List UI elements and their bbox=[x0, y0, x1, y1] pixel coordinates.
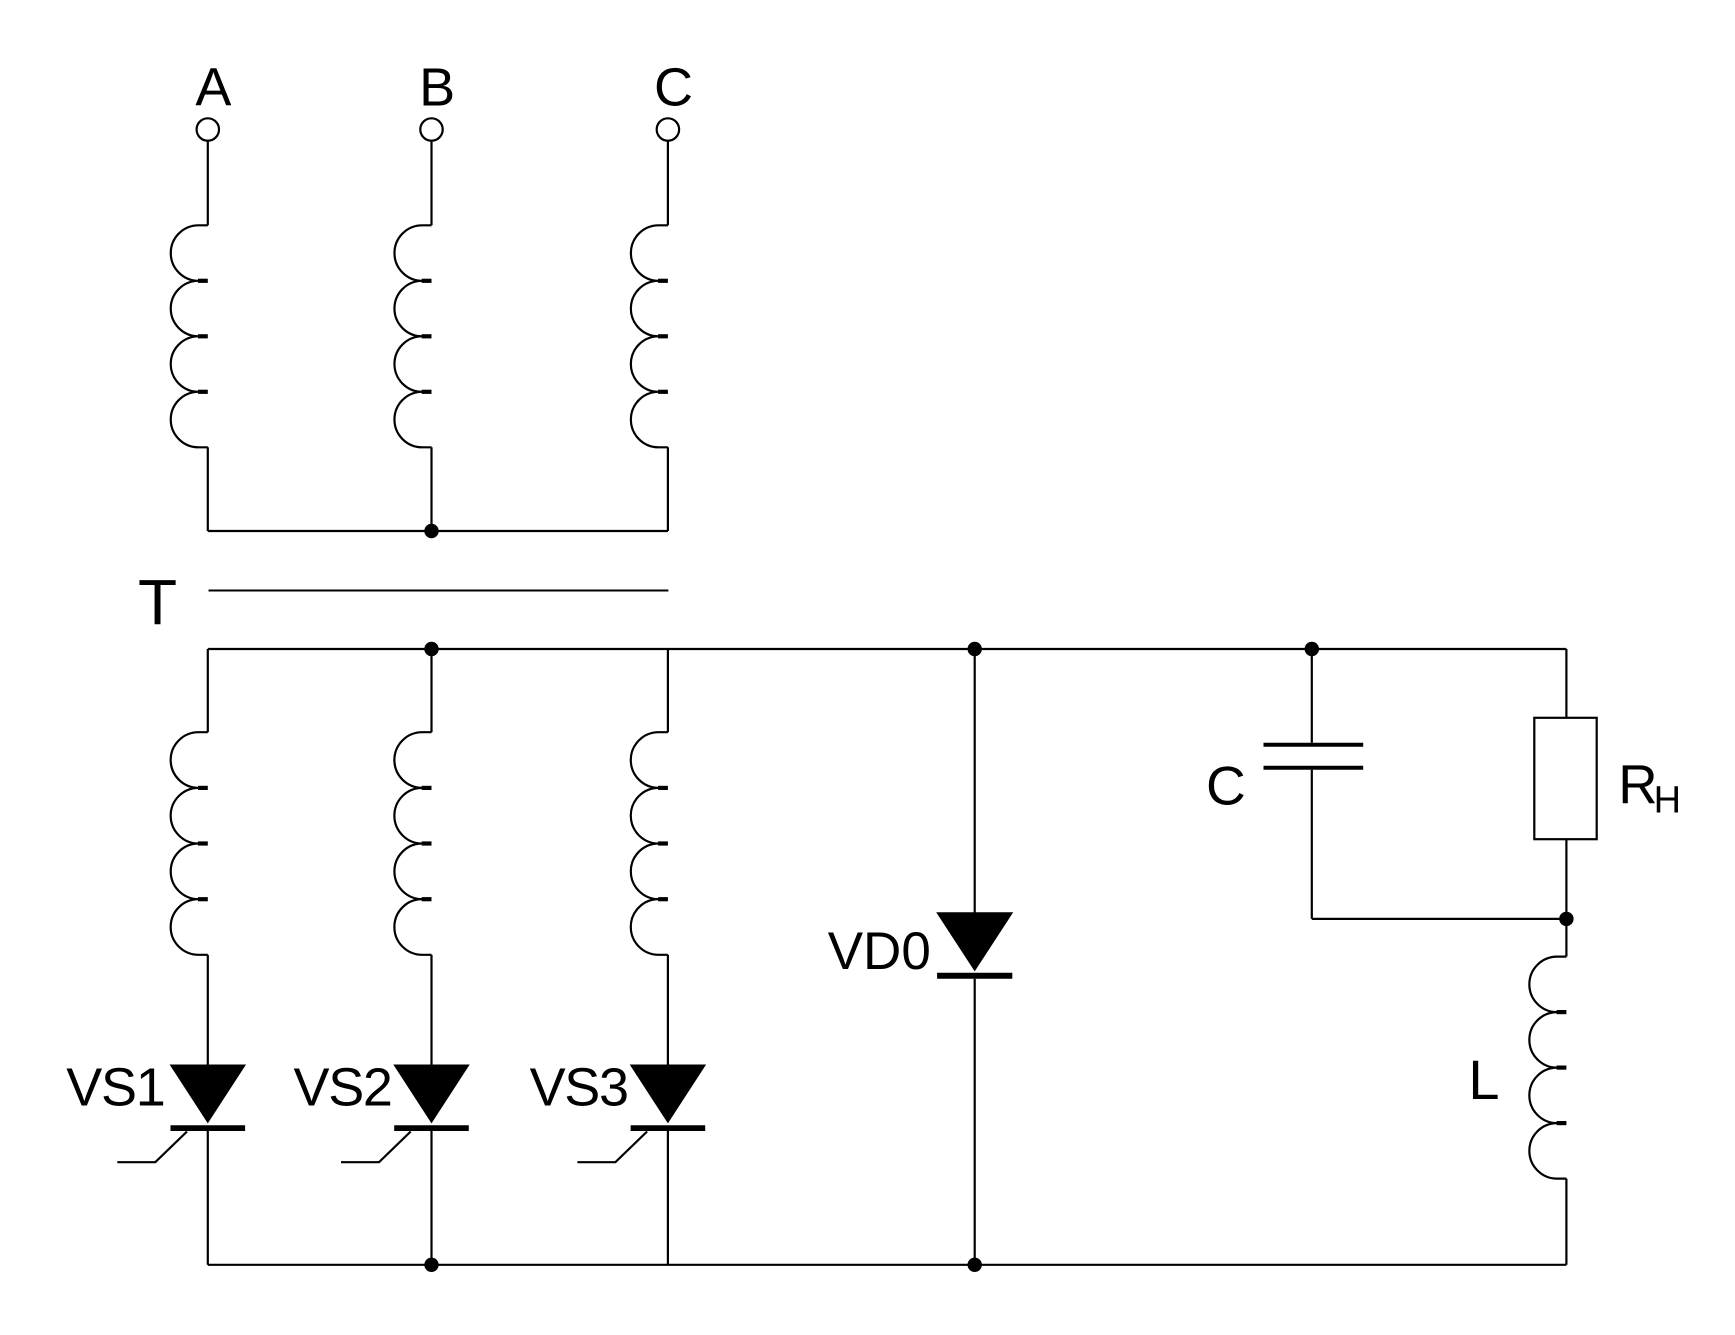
wire top bus corner down to resistor RH bbox=[1565, 649, 1567, 718]
wire primary winding B bottom to neutral bbox=[430, 447, 432, 531]
wire neutral (star point) bbox=[208, 530, 668, 532]
capacitor C bottom plate bbox=[1264, 766, 1364, 770]
node bottom bus - VD0 junction bbox=[968, 1258, 982, 1272]
wire top bus to capacitor C bbox=[1311, 649, 1313, 743]
thyristor VS1 cathode bar bbox=[171, 1125, 246, 1131]
capacitor C top plate bbox=[1264, 743, 1364, 747]
thyristor VS3 cathode bar bbox=[631, 1125, 706, 1131]
wire secondary winding C to thyristor VS3 bbox=[667, 955, 669, 1065]
node star point junction bbox=[424, 524, 438, 538]
wire load node to inductor L bbox=[1565, 926, 1567, 957]
secondary winding phase C bbox=[631, 732, 668, 955]
node top bus - capacitor junction bbox=[1305, 642, 1319, 656]
node capacitor / RH / L junction bbox=[1559, 912, 1573, 926]
wire thyristor VS1 cathode to bottom bus bbox=[207, 1131, 209, 1265]
wire bus to secondary winding A bbox=[207, 649, 209, 732]
primary winding phase C bbox=[631, 225, 668, 447]
svg-text:VD0: VD0 bbox=[828, 922, 931, 981]
secondary winding phase A bbox=[171, 732, 208, 955]
svg-text:VS1: VS1 bbox=[66, 1058, 164, 1118]
terminal B bbox=[420, 118, 442, 140]
wire bus to secondary winding C bbox=[667, 649, 669, 732]
thyristor VS2 cathode bar bbox=[394, 1125, 469, 1131]
wire diode VD0 cathode to bottom bus bbox=[974, 979, 976, 1265]
inductor L bbox=[1529, 957, 1566, 1179]
node bottom bus - phase B junction bbox=[424, 1258, 438, 1272]
thyristor VS1 anode triangle bbox=[171, 1065, 246, 1123]
svg-text:A: A bbox=[195, 58, 231, 118]
resistor RH body bbox=[1534, 718, 1596, 839]
thyristor VS2 gate lead bbox=[341, 1132, 411, 1163]
svg-text:L: L bbox=[1468, 1048, 1499, 1111]
wire A terminal to primary winding bbox=[207, 141, 209, 226]
wire B terminal to primary winding bbox=[430, 141, 432, 226]
svg-text:B: B bbox=[419, 58, 455, 118]
thyristor VS1 gate lead bbox=[117, 1132, 187, 1163]
wire capacitor bottom to load node bbox=[1312, 918, 1567, 920]
terminal C bbox=[657, 118, 679, 140]
wire top bus to diode VD0 bbox=[974, 649, 976, 913]
svg-text:T: T bbox=[138, 566, 177, 638]
thyristor VS3 anode triangle bbox=[631, 1065, 706, 1123]
terminal A bbox=[197, 118, 219, 140]
wire secondary winding A to thyristor VS1 bbox=[207, 955, 209, 1065]
thyristor VS3 gate lead bbox=[577, 1132, 647, 1163]
wire primary winding C bottom to neutral bbox=[667, 447, 669, 531]
wire thyristor VS2 cathode to bottom bus bbox=[430, 1131, 432, 1265]
wire top bus (cathode rail) bbox=[208, 648, 1567, 650]
wire C terminal to primary winding bbox=[667, 141, 669, 226]
wire thyristor VS3 cathode to bottom bus bbox=[667, 1131, 669, 1265]
diode VD0 anode triangle bbox=[937, 913, 1012, 971]
primary winding phase B bbox=[394, 225, 431, 447]
wire primary winding A bottom to neutral bbox=[207, 447, 209, 531]
svg-text:C: C bbox=[654, 58, 693, 118]
wire capacitor C bottom lead bbox=[1311, 770, 1313, 919]
wire secondary winding B to thyristor VS2 bbox=[430, 955, 432, 1065]
secondary winding phase B bbox=[394, 732, 431, 955]
wire bottom bus (anode rail) bbox=[208, 1264, 1567, 1266]
svg-text:VS2: VS2 bbox=[294, 1058, 392, 1118]
node top bus - VD0 junction bbox=[968, 642, 982, 656]
svg-text:C: C bbox=[1206, 755, 1246, 817]
transformer T core line bbox=[209, 590, 669, 592]
diode VD0 cathode bar bbox=[937, 973, 1012, 979]
thyristor VS2 anode triangle bbox=[394, 1065, 469, 1123]
wire resistor RH bottom to load node bbox=[1565, 839, 1567, 919]
svg-text:VS3: VS3 bbox=[530, 1058, 628, 1118]
svg-text:R: R bbox=[1618, 754, 1657, 815]
primary winding phase A bbox=[171, 225, 208, 447]
svg-text:H: H bbox=[1654, 779, 1681, 821]
wire inductor L to bottom bus bbox=[1565, 1179, 1567, 1265]
wire bus to secondary winding B bbox=[430, 649, 432, 732]
node top bus - phase B junction bbox=[424, 642, 438, 656]
